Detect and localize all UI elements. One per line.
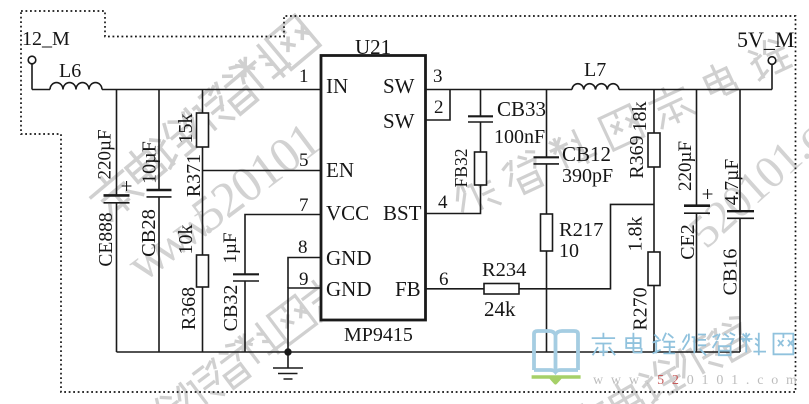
wire terminal drop (31, 64, 33, 90)
resistor R217 (541, 214, 553, 251)
wire FB to divider (519, 204, 654, 288)
svg-text:FB32: FB32 (451, 149, 471, 188)
svg-text:1: 1 (299, 66, 309, 87)
svg-text:www.520101.com: www.520101.com (593, 373, 805, 388)
svg-text:VCC: VCC (326, 201, 369, 225)
wire BST pin4 (426, 185, 481, 214)
svg-text:9: 9 (299, 269, 309, 290)
wire FB pin6 (426, 288, 485, 290)
watermark hanzi row top-right (450, 34, 794, 222)
svg-text:15k: 15k (175, 114, 197, 144)
wire terminal drop right (771, 65, 773, 90)
svg-text:4.7µF: 4.7µF (722, 159, 743, 206)
svg-text:IN: IN (326, 74, 348, 98)
ground rail (117, 351, 741, 353)
svg-text:220µF: 220µF (675, 141, 696, 191)
svg-text:CB32: CB32 (220, 285, 242, 332)
svg-text:CE2: CE2 (677, 224, 699, 260)
svg-text:R369: R369 (626, 135, 648, 178)
svg-text:R234: R234 (482, 259, 526, 281)
svg-text:R270: R270 (630, 287, 652, 330)
watermark hanzi row top-left (83, 14, 322, 224)
svg-text:7: 7 (299, 195, 309, 216)
resistor R371 (202, 90, 204, 114)
svg-text:R217: R217 (559, 219, 603, 241)
svg-text:3: 3 (433, 66, 443, 87)
junction ground node (284, 348, 291, 355)
wire EN (203, 170, 322, 172)
capacitor CB28 (158, 90, 160, 190)
ferrite bead FB32 (475, 152, 487, 185)
svg-text:L7: L7 (584, 59, 606, 81)
resistor R270 (648, 252, 660, 286)
svg-text:EN: EN (326, 158, 354, 182)
svg-text:CB28: CB28 (138, 209, 160, 257)
svg-text:GND: GND (326, 246, 372, 270)
svg-text:R368: R368 (178, 287, 200, 330)
svg-text:5V_M: 5V_M (737, 27, 794, 52)
svg-text:8: 8 (298, 237, 308, 258)
wire L7 to 5V_M (619, 89, 772, 91)
capacitor CB12 (546, 90, 548, 158)
svg-text:12_M: 12_M (22, 28, 70, 50)
wire input to L6 (32, 89, 50, 91)
wire GND pin8 (288, 258, 321, 289)
svg-text:CB12: CB12 (562, 142, 611, 166)
inductor L6 (50, 83, 102, 90)
svg-text:24k: 24k (484, 297, 516, 321)
wire GND pin9 (288, 288, 321, 352)
svg-text:100nF: 100nF (494, 126, 545, 148)
svg-text:10: 10 (559, 240, 579, 262)
svg-text:220µF: 220µF (95, 129, 116, 179)
capacitor CE888 (116, 90, 118, 196)
svg-text:CB33: CB33 (497, 97, 546, 121)
capacitor CE2 (696, 90, 698, 206)
logo green swoosh (532, 375, 581, 384)
op-amp U21 MP9415 chip body (321, 56, 426, 321)
svg-text:L6: L6 (59, 60, 81, 82)
wire VCC pin7 (245, 215, 321, 275)
node 5V_M terminal (768, 57, 776, 65)
svg-text:U21: U21 (355, 35, 391, 59)
svg-text:4: 4 (438, 192, 448, 213)
logo book icon (534, 331, 578, 372)
svg-text:FB: FB (395, 277, 421, 301)
capacitor CB33 (480, 90, 482, 117)
capacitor CB16 (739, 90, 741, 211)
svg-text:CE888: CE888 (96, 212, 117, 266)
svg-text:MP9415: MP9415 (344, 324, 413, 346)
ground (273, 352, 303, 379)
wire SW pin3 to output (426, 89, 573, 91)
svg-text:390pF: 390pF (562, 165, 613, 187)
svg-text:SW: SW (383, 74, 415, 98)
wire L6 to pin1 (102, 89, 321, 91)
svg-text:10µF: 10µF (139, 141, 161, 184)
node 12_M terminal (28, 56, 36, 64)
svg-text:+: + (121, 174, 133, 198)
svg-text:2: 2 (434, 97, 444, 118)
watermark hanzi row bottom-center (493, 314, 757, 404)
resistor R234 (484, 284, 519, 295)
svg-text:R371: R371 (183, 154, 205, 197)
svg-text:BST: BST (383, 201, 422, 225)
capacitor CB32 (233, 273, 259, 275)
watermark hanzi row bottom-left (138, 248, 380, 404)
wire SW pin2 tie (426, 90, 451, 121)
svg-text:10k: 10k (175, 225, 197, 255)
svg-text:6: 6 (439, 269, 449, 290)
svg-text:CB16: CB16 (720, 249, 742, 296)
resistor R368 (197, 255, 209, 287)
svg-text:1µF: 1µF (220, 232, 241, 263)
resistor R369 (653, 90, 655, 134)
svg-text:SW: SW (383, 109, 415, 133)
svg-text:5: 5 (299, 150, 309, 171)
svg-text:GND: GND (326, 277, 372, 301)
svg-text:+: + (702, 182, 714, 206)
inductor L7 (572, 84, 619, 90)
logo hanzi text (592, 333, 794, 356)
svg-text:18k: 18k (629, 102, 651, 132)
svg-text:1.8k: 1.8k (625, 217, 647, 252)
